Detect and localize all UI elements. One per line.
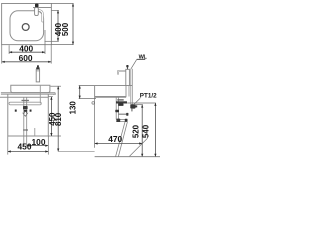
dim 500 vertical: line xyxy=(72,4,74,45)
faucet plan: body xyxy=(35,7,39,15)
drain-wall connector xyxy=(118,113,126,115)
dim 450 right: line xyxy=(50,97,52,136)
faucet plan: handle knob xyxy=(35,4,39,8)
valve tail pipe xyxy=(131,109,133,112)
drain circle xyxy=(22,24,29,31)
elbow corner fitting xyxy=(116,119,120,122)
side faucet spout xyxy=(118,71,126,75)
hook circle xyxy=(92,102,95,105)
pipe coupling xyxy=(23,129,28,131)
dim 470: line xyxy=(95,143,143,145)
drain tee dark bar xyxy=(116,101,127,103)
svg-text:810: 810 xyxy=(54,112,63,126)
faucet shank xyxy=(128,86,130,97)
counter slab xyxy=(1,92,55,94)
floor line xyxy=(95,156,160,158)
dim 810: ext top xyxy=(51,85,62,87)
drain pipe nut 2 xyxy=(115,110,119,112)
svg-text:600: 600 xyxy=(19,53,33,63)
side faucet body xyxy=(126,69,130,85)
dim 400 vertical: line xyxy=(57,10,59,41)
side faucet lever tip xyxy=(126,65,128,67)
ledge line xyxy=(33,7,51,9)
sink bottom double xyxy=(95,96,126,98)
side dots xyxy=(15,110,17,112)
dim 520: line xyxy=(141,105,143,157)
drain pipes side xyxy=(115,97,117,119)
dim 130: ext bottom xyxy=(79,98,96,100)
svg-text:PT1/2: PT1/2 xyxy=(140,92,157,99)
faucet tip xyxy=(37,65,39,67)
drain pipe front xyxy=(23,97,25,146)
supply pipe vertical xyxy=(130,69,132,105)
svg-text:540: 540 xyxy=(141,124,150,138)
drop pipe diagonal xyxy=(116,122,125,157)
side faucet lever xyxy=(127,67,129,70)
dim 450 bottom: line xyxy=(8,151,49,153)
faucet plan: spout xyxy=(38,10,42,21)
drain nut 1 xyxy=(23,106,28,109)
dim 540: line xyxy=(154,103,156,157)
dim 810: line xyxy=(57,86,59,151)
drain nut side xyxy=(118,104,123,106)
dim 810 bottom ref line xyxy=(58,151,94,153)
svg-text:400: 400 xyxy=(19,43,33,53)
drain flange xyxy=(22,100,29,101)
supply tail pipe xyxy=(39,85,41,103)
sink front edge xyxy=(94,86,96,98)
drain flange side xyxy=(117,99,123,100)
faucet body xyxy=(36,69,39,82)
sink rim front xyxy=(11,85,50,92)
svg-text:470: 470 xyxy=(108,134,122,144)
svg-text:520: 520 xyxy=(132,124,141,138)
dim 100: line xyxy=(27,145,49,147)
dim 400 horizontal: line xyxy=(9,51,45,53)
diagonal leader B xyxy=(130,138,148,156)
dim 500 vertical: ext lines xyxy=(51,3,73,5)
rail capsule xyxy=(9,102,41,105)
dim 400 horizontal: ext lines xyxy=(8,45,10,54)
dim 600 horizontal: ext lines xyxy=(1,45,3,64)
PT1/2 leader xyxy=(134,98,141,105)
counter outer rect xyxy=(2,4,52,45)
hollow arrow xyxy=(23,112,28,117)
cabinet sides xyxy=(7,94,9,136)
WL leader xyxy=(131,59,137,69)
valve xyxy=(130,104,135,108)
dim 520/540 ext lines xyxy=(127,102,156,104)
divider stub xyxy=(34,128,36,136)
dim 470: ext left xyxy=(94,97,96,147)
svg-text:130: 130 xyxy=(69,101,78,115)
cabinet bottom xyxy=(8,135,49,137)
sink back edge xyxy=(125,86,127,98)
dim 600 horizontal: line xyxy=(2,61,51,63)
svg-text:100: 100 xyxy=(32,137,46,147)
dim 450 right: ext xyxy=(49,96,53,98)
basin rounded rect xyxy=(10,11,44,41)
elbow nut xyxy=(125,119,128,122)
dim 450 bottom: ext xyxy=(7,136,9,155)
svg-text:450: 450 xyxy=(18,141,32,151)
cabinet top line xyxy=(0,96,48,98)
dim 130: line xyxy=(79,86,81,99)
svg-text:500: 500 xyxy=(61,22,70,36)
dim 400 vertical: ext lines xyxy=(51,9,58,11)
elbow horizontal xyxy=(116,118,125,120)
drain nut 2 xyxy=(24,110,27,112)
faucet handle xyxy=(36,67,39,69)
rim line + 130 ext left xyxy=(79,85,133,87)
